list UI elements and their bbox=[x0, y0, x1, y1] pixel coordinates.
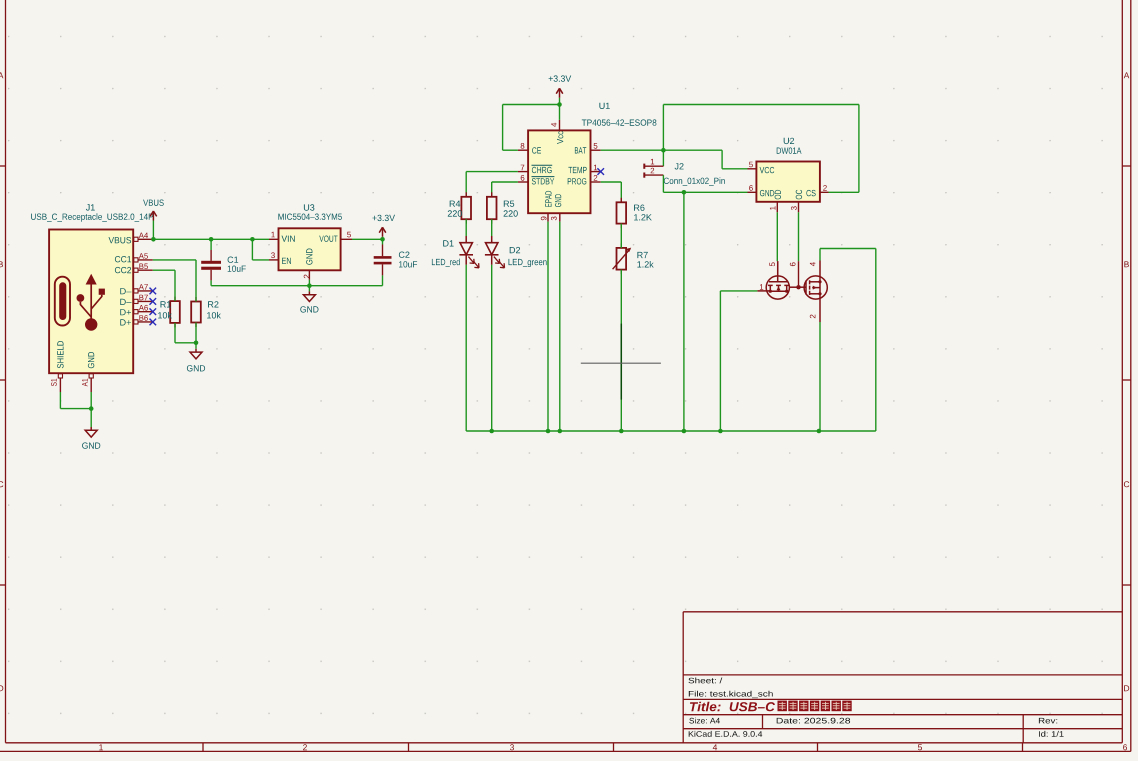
sheet frame outer border bbox=[1130, 0, 1132, 751]
junction VBUS at EN riser bbox=[250, 237, 255, 242]
wire OD down to FET1 drain bbox=[776, 212, 778, 261]
transistor Q1 (left FET) bbox=[757, 261, 798, 299]
wire S1 shield down bbox=[59, 392, 61, 409]
wire R1 R2 bottoms to gnd bbox=[174, 323, 176, 343]
wire CC1 to R2 bbox=[153, 259, 196, 261]
resistor R5 bbox=[491, 192, 493, 197]
title block title text bbox=[690, 702, 775, 712]
U3 pin names bbox=[282, 236, 295, 242]
U3 pin stubs bbox=[269, 238, 279, 240]
wire PROG to R6 bbox=[601, 181, 622, 183]
U1 pin names bbox=[532, 147, 541, 153]
wire CC2 to R1 bbox=[153, 269, 175, 271]
capacitor C1 bbox=[210, 239, 212, 250]
J1 pin numbers bbox=[139, 233, 148, 239]
wire gate rail drop bbox=[720, 290, 757, 292]
wire VBUS row J1 to U3 VIN bbox=[153, 238, 269, 240]
junction rail J2 drop bbox=[682, 429, 687, 434]
capacitor C2 bbox=[382, 239, 384, 244]
wire R7 down to rail bbox=[620, 270, 622, 431]
bottom gnd rail bbox=[466, 430, 876, 432]
regulator U3 body bbox=[279, 228, 341, 270]
junction rail EPAD bbox=[546, 429, 551, 434]
J1 reference bbox=[86, 204, 95, 210]
Q2 pin number 2 bbox=[810, 315, 816, 319]
connector J2 pin 1 bbox=[644, 165, 663, 167]
variable resistor R7 bbox=[620, 243, 622, 248]
junction rail gate drop bbox=[718, 429, 723, 434]
Q1 pin number 1 bbox=[760, 284, 763, 290]
wire +3.3V to CE bbox=[503, 104, 560, 106]
wire U1 GND down bbox=[559, 222, 561, 431]
wire +3.3V to Vcc bbox=[559, 105, 561, 120]
connector J1 body bbox=[49, 230, 133, 374]
junction J1 gnd bbox=[89, 406, 94, 411]
U3 pin numbers bbox=[271, 232, 274, 238]
title CJK glyph blocks bbox=[778, 701, 787, 712]
Q1 pin number 5 bbox=[769, 262, 775, 266]
wire A1 gnd down bbox=[90, 392, 92, 427]
U1 pin numbers bbox=[521, 143, 525, 149]
J1 value USB_C_Receptacle_USB2.0_14P bbox=[31, 213, 153, 221]
wire bottom C1 to C2 bbox=[211, 285, 382, 287]
junction J2 gnd drop bbox=[682, 190, 687, 195]
U2 pin names bbox=[760, 167, 775, 173]
junction U3 gnd bbox=[307, 283, 312, 288]
junction R1R2 gnd bbox=[194, 341, 199, 346]
J1 right pin stubs bbox=[133, 238, 153, 240]
junction rail GND bbox=[558, 429, 563, 434]
no-connect X on D pins bbox=[150, 288, 157, 295]
J1 bottom pin stubs S1 A1 bbox=[59, 373, 61, 392]
J1 usb trident icon bbox=[80, 284, 101, 325]
wire EN riser bbox=[251, 239, 253, 260]
wire R6 to R7 bbox=[620, 224, 622, 248]
ground symbol below R2 bbox=[195, 343, 197, 349]
Q2 pin number 6 (OC stub) bbox=[798, 261, 800, 285]
title block text file bbox=[689, 691, 773, 698]
frame ticks right bbox=[1122, 165, 1131, 167]
wire STDBY to R5 bbox=[492, 181, 518, 183]
J1 GND pin name bbox=[88, 352, 94, 368]
charger U1 body bbox=[528, 130, 590, 213]
wire VCC drop bbox=[721, 150, 723, 169]
FET pin5 red stub bbox=[777, 261, 779, 276]
J1 SHIELD pin name bbox=[57, 341, 63, 368]
frame ticks left bbox=[0, 165, 6, 167]
top rail to CS bbox=[663, 104, 859, 106]
Q2 pin number 4 bbox=[810, 262, 816, 266]
title block kicad/id bbox=[689, 731, 763, 737]
no-connect X on TEMP bbox=[597, 168, 604, 175]
resistor R1 bbox=[174, 297, 176, 302]
wire J2 pin2 to U2 GND bbox=[662, 175, 664, 192]
frame row letters bbox=[0, 72, 3, 78]
protection ic U2 body bbox=[756, 162, 820, 202]
J2 reference bbox=[675, 163, 684, 169]
wire FET pin2 down to rail bbox=[819, 322, 821, 431]
resistor R4 bbox=[465, 192, 467, 197]
frame ticks bottom bbox=[202, 743, 204, 752]
U1 pin stubs bbox=[518, 149, 528, 151]
junction rail R7 bbox=[619, 429, 624, 434]
wire VOUT to C2 bbox=[352, 238, 383, 240]
U2 pin numbers bbox=[749, 162, 753, 168]
LED D1 bbox=[465, 219, 467, 236]
gray graphic line bbox=[581, 362, 661, 364]
resistor R6 bbox=[620, 198, 622, 203]
wire BAT down to J2 pin1 bbox=[662, 150, 664, 166]
wire EPAD down bbox=[547, 222, 549, 431]
wire OC down to gate node bbox=[798, 212, 800, 261]
junction +3.3V U1 bbox=[557, 102, 562, 107]
wire CHRG to R4 bbox=[466, 171, 518, 173]
ground symbol below U3 bbox=[308, 286, 310, 292]
wire BAT to J2/U2 bbox=[601, 149, 722, 151]
wire U3 GND down bbox=[308, 280, 310, 286]
title block text sheet bbox=[689, 678, 723, 684]
J2 value Conn_01x02_Pin bbox=[664, 177, 725, 185]
junction rail D2 bbox=[489, 429, 494, 434]
junction BAT node bbox=[661, 148, 666, 153]
junction VBUS at power bbox=[151, 237, 156, 242]
wire FET pin4 to right rail bbox=[819, 249, 821, 261]
dark overlay segment on R7 wire bbox=[620, 324, 622, 400]
J1 pin names bbox=[109, 237, 132, 243]
transistor Q2 (right FET) bbox=[799, 261, 828, 323]
power symbol VBUS bbox=[152, 211, 154, 221]
ground symbol below J1 bbox=[90, 427, 92, 430]
connector J2 pin 2 bbox=[644, 174, 663, 176]
title block size/date/rev bbox=[689, 718, 720, 724]
title block outline bbox=[683, 611, 1122, 613]
resistor R2 bbox=[195, 297, 197, 302]
frame column numbers bbox=[99, 744, 103, 750]
LED D2 bbox=[491, 219, 493, 236]
wire gnd drop to rail bbox=[683, 192, 685, 431]
power symbol +3.3V at U3 bbox=[382, 227, 384, 237]
U2 pin stubs bbox=[748, 168, 757, 170]
sheet frame inner border bbox=[5, 0, 7, 743]
J1 usb-c pill icon bbox=[55, 277, 70, 326]
power symbol +3.3V at U1 bbox=[559, 88, 561, 98]
junction VOUT C2 bbox=[380, 237, 385, 242]
wire BAT riser to top rail bbox=[662, 105, 664, 151]
junction FET gate node bbox=[796, 285, 800, 289]
junction VBUS at C1 bbox=[209, 237, 214, 242]
junction rail FET pin2 bbox=[817, 429, 822, 434]
